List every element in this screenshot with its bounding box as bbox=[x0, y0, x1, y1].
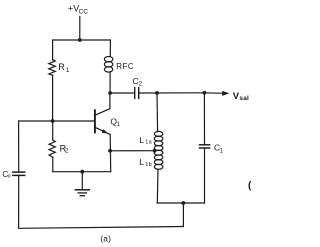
wire R1 bottom lead bbox=[52, 75, 54, 121]
wire output arrow bbox=[204, 92, 223, 95]
wire output rail left bbox=[110, 92, 134, 94]
capacitor C0 bbox=[13, 171, 25, 173]
svg-text:CC: CC bbox=[79, 9, 89, 16]
wire L1 bottom lead bbox=[156, 169, 159, 203]
capacitor C2 bbox=[134, 88, 136, 99]
node emitter tap junction dot bbox=[108, 149, 112, 153]
resistor R1 bbox=[49, 60, 56, 76]
wire left column top bbox=[18, 121, 20, 172]
svg-text:2: 2 bbox=[65, 148, 69, 154]
wire R1 top lead bbox=[52, 40, 54, 60]
svg-text:1: 1 bbox=[220, 148, 224, 154]
wire output rail right bbox=[139, 92, 204, 94]
svg-text:R: R bbox=[58, 62, 65, 72]
svg-text:RFC: RFC bbox=[116, 62, 134, 71]
wire R2 bottom lead bbox=[52, 157, 54, 172]
wire left column bottom bbox=[18, 175, 20, 228]
svg-text:2: 2 bbox=[139, 81, 143, 87]
svg-text:sal: sal bbox=[239, 95, 249, 102]
wire L1 top lead bbox=[156, 93, 159, 132]
svg-text:(: ( bbox=[248, 180, 252, 191]
node ground junction dot bbox=[80, 170, 84, 174]
svg-text:1: 1 bbox=[117, 122, 121, 128]
svg-text:+V: +V bbox=[68, 4, 79, 14]
resistor R2 bbox=[49, 140, 55, 157]
wire base lead bbox=[19, 120, 95, 122]
wire emitter vertical bbox=[109, 134, 112, 171]
wire tank center drop bbox=[182, 203, 184, 227]
node figure label (a) bbox=[100, 234, 111, 243]
svg-text:1a: 1a bbox=[145, 140, 152, 146]
wire top rail bbox=[53, 39, 111, 41]
svg-text:L: L bbox=[139, 157, 144, 167]
wire emitter rail bbox=[53, 171, 111, 173]
node coil tap junction dot bbox=[153, 149, 157, 153]
transistor Q1 bbox=[95, 93, 121, 134]
wire bottom rail bbox=[19, 227, 184, 229]
node base junction dot bbox=[51, 119, 55, 123]
node +Vcc label bbox=[68, 4, 88, 16]
node C1 top junction dot bbox=[203, 91, 207, 95]
node Vsal label bbox=[233, 91, 249, 102]
node Vcc junction dot bbox=[78, 38, 82, 42]
wire tank bottom rail bbox=[157, 202, 204, 204]
svg-text:1b: 1b bbox=[145, 162, 152, 168]
node L1 top junction dot bbox=[155, 91, 159, 95]
svg-text:o: o bbox=[8, 174, 11, 180]
node tank bottom junction dot bbox=[182, 201, 186, 205]
inductor RFC bbox=[109, 40, 111, 57]
svg-text:L: L bbox=[139, 135, 144, 145]
capacitor C1 bbox=[203, 93, 205, 145]
svg-text:(a): (a) bbox=[100, 234, 111, 243]
wire emitter tap bbox=[110, 150, 155, 152]
ground bbox=[75, 172, 89, 196]
inductor L1a bbox=[154, 131, 163, 150]
inductor L1b bbox=[154, 150, 163, 169]
wire Vcc stem bbox=[79, 17, 81, 41]
node partial character at right edge bbox=[248, 180, 252, 191]
wire R2 top lead bbox=[52, 121, 54, 140]
svg-text:1: 1 bbox=[66, 68, 70, 74]
node collector junction dot bbox=[108, 91, 112, 95]
